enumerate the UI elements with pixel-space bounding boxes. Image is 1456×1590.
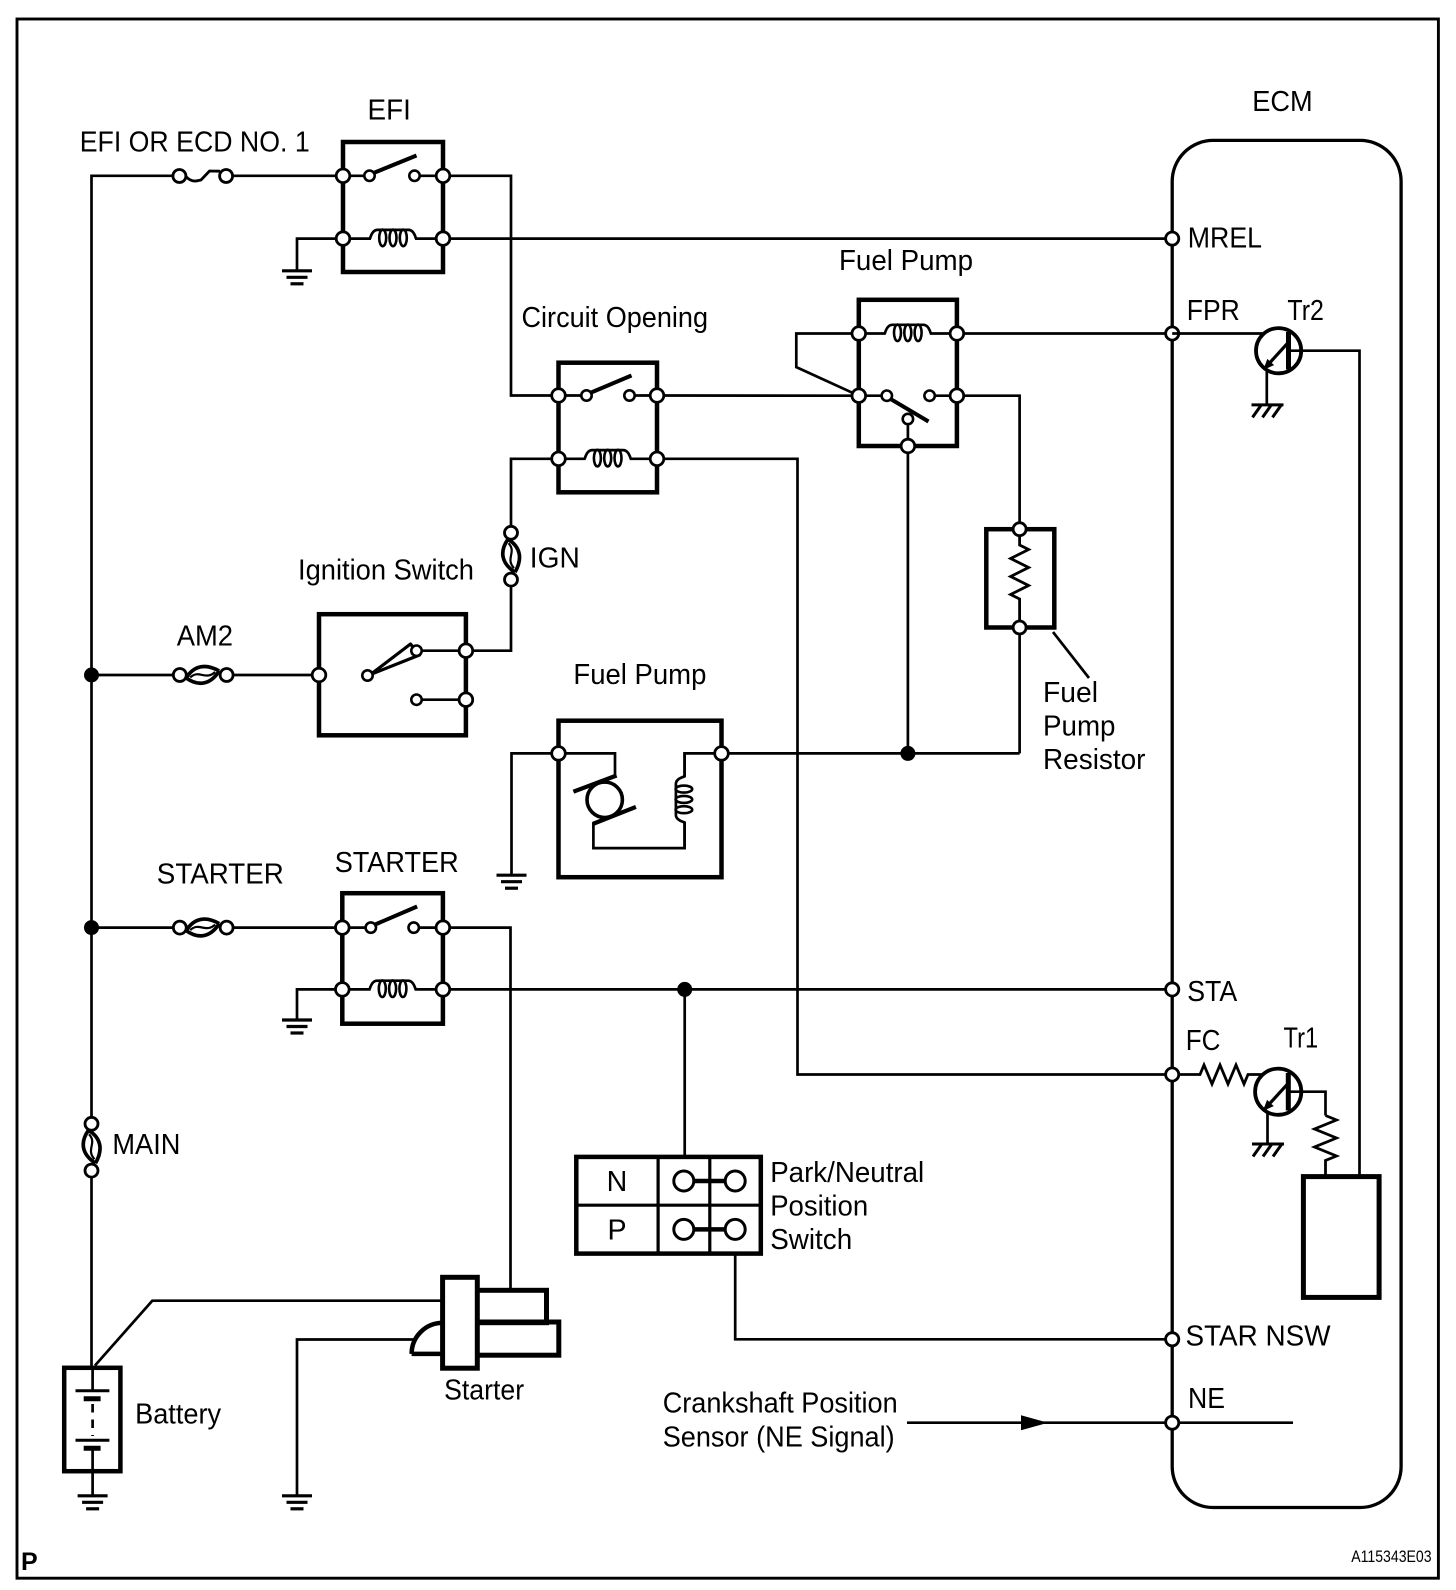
fuse IGN bbox=[503, 526, 520, 586]
pump motor coil bbox=[676, 752, 693, 846]
node junction STA to park neutral bbox=[677, 982, 692, 997]
label MREL bbox=[1188, 223, 1262, 255]
ground Tr2 bbox=[1252, 405, 1284, 418]
wire STA to park neutral switch bbox=[683, 989, 686, 1157]
ground STARTER relay bbox=[282, 1020, 312, 1033]
wire EFI coil to ground bbox=[297, 239, 336, 270]
label NE bbox=[1188, 1383, 1225, 1415]
svg-text:MAIN: MAIN bbox=[112, 1129, 180, 1161]
label FC bbox=[1186, 1025, 1221, 1057]
relay STARTER coil bbox=[346, 980, 440, 997]
ground starter bbox=[282, 1496, 312, 1509]
svg-text:Park/Neutral: Park/Neutral bbox=[770, 1157, 924, 1189]
label P row bbox=[607, 1214, 626, 1246]
svg-text:STAR NSW: STAR NSW bbox=[1186, 1320, 1331, 1352]
wire park neutral to STAR NSW bbox=[735, 1254, 1172, 1340]
svg-text:NE: NE bbox=[1188, 1383, 1225, 1415]
svg-text:EFI: EFI bbox=[368, 95, 411, 127]
callout line Fuel Pump Resistor bbox=[1053, 632, 1089, 678]
switch Park Neutral N row bbox=[674, 1171, 745, 1191]
svg-text:FC: FC bbox=[1186, 1025, 1221, 1057]
svg-text:AM2: AM2 bbox=[177, 620, 233, 652]
starter solenoid body bbox=[443, 1277, 478, 1368]
label A115343E03 bbox=[1351, 1548, 1431, 1566]
relay Fuel Pump switch pins bbox=[852, 389, 964, 403]
svg-text:FPR: FPR bbox=[1187, 295, 1240, 327]
label Park/Neutral Position Switch bbox=[770, 1157, 924, 1256]
svg-text:Tr2: Tr2 bbox=[1287, 295, 1324, 327]
starter lower housing bbox=[476, 1322, 559, 1355]
ground EFI relay bbox=[282, 271, 312, 284]
fuse AM2 bbox=[173, 666, 233, 683]
pump motor brushes bbox=[573, 776, 636, 825]
fuse EFI OR ECD NO. 1 bbox=[173, 170, 233, 183]
wire IGN fuse to ignition switch bbox=[466, 586, 511, 650]
wire AM2 left bbox=[92, 674, 174, 677]
label Ignition Switch bbox=[298, 555, 474, 587]
wire Circuit Opening coil to IGN fuse bbox=[511, 459, 559, 526]
relay Circuit Opening switch blade bbox=[559, 376, 658, 396]
relay Circuit Opening coil pins bbox=[552, 452, 664, 466]
switch blade bbox=[371, 644, 420, 675]
relay Fuel Pump bottom pin bbox=[901, 439, 915, 453]
label Crankshaft Position Sensor bbox=[663, 1387, 898, 1453]
label EFI bbox=[368, 95, 411, 127]
relay Fuel Pump coil pins bbox=[852, 327, 964, 341]
label N bbox=[607, 1166, 628, 1198]
wire Fuel Pump relay bottom down bbox=[907, 446, 910, 753]
relay Circuit Opening coil bbox=[561, 450, 655, 467]
svg-text:Resistor: Resistor bbox=[1043, 744, 1146, 776]
relay STARTER coil pins bbox=[336, 983, 450, 997]
wire STARTER fuse to relay bbox=[233, 926, 342, 929]
pump motor circle bbox=[587, 782, 622, 817]
label ECM bbox=[1252, 86, 1312, 118]
relay Fuel Pump coil bbox=[861, 325, 955, 342]
label EFI OR ECD NO. 1 bbox=[80, 127, 310, 159]
label Tr1 bbox=[1284, 1022, 1319, 1054]
resistor Tr1 load zigzag bbox=[1315, 1116, 1337, 1177]
label Fuel Pump motor bbox=[573, 659, 706, 691]
svg-text:Fuel: Fuel bbox=[1043, 677, 1098, 709]
wire STARTER coil to ground bbox=[297, 989, 336, 1019]
label STAR NSW bbox=[1186, 1320, 1331, 1352]
transistor Tr1 emitter lead bbox=[1266, 1112, 1269, 1144]
label IGN bbox=[530, 542, 580, 574]
svg-text:P: P bbox=[21, 1548, 38, 1576]
label AM2 bbox=[177, 620, 233, 652]
svg-text:Starter: Starter bbox=[444, 1374, 524, 1406]
wire left bus bottom bbox=[90, 1177, 93, 1369]
wire fuel pump to ground bbox=[512, 753, 552, 874]
svg-text:MREL: MREL bbox=[1188, 223, 1262, 255]
label FPR bbox=[1187, 295, 1240, 327]
relay EFI switch blade bbox=[343, 156, 443, 176]
label Tr2 bbox=[1287, 295, 1324, 327]
svg-text:A115343E03: A115343E03 bbox=[1351, 1548, 1431, 1566]
node FC terminal bbox=[1166, 1068, 1179, 1081]
wire Circuit Opening coil to FC bbox=[657, 459, 1172, 1075]
transistor Tr2 emitter bbox=[1263, 341, 1290, 370]
switch pins bbox=[312, 668, 372, 682]
ground Tr1 bbox=[1252, 1144, 1284, 1157]
starter nose cone bbox=[412, 1323, 444, 1354]
resistor FC zigzag bbox=[1179, 1065, 1262, 1084]
svg-text:Fuel Pump: Fuel Pump bbox=[573, 659, 706, 691]
pump Fuel Pump box bbox=[559, 721, 722, 878]
label Fuel Pump relay bbox=[839, 245, 973, 277]
load box in ECM bbox=[1303, 1177, 1379, 1298]
svg-text:STA: STA bbox=[1187, 976, 1238, 1008]
wire battery to ground bbox=[91, 1471, 94, 1495]
svg-text:Tr1: Tr1 bbox=[1284, 1022, 1319, 1054]
wire STA bbox=[443, 988, 1172, 991]
node STAR NSW terminal bbox=[1166, 1333, 1179, 1346]
svg-text:EFI OR ECD NO. 1: EFI OR ECD NO. 1 bbox=[80, 127, 310, 159]
wire Fuel Pump coil loop bbox=[796, 334, 859, 396]
label P bbox=[21, 1548, 38, 1576]
svg-text:Fuel Pump: Fuel Pump bbox=[839, 245, 973, 277]
pump inner leads bbox=[559, 753, 722, 848]
svg-text:N: N bbox=[607, 1166, 628, 1198]
ground fuel pump bbox=[497, 875, 527, 888]
node resistor bottom bbox=[1013, 621, 1026, 634]
svg-text:Battery: Battery bbox=[135, 1399, 222, 1431]
transistor Tr1 emitter bbox=[1263, 1082, 1290, 1111]
relay STARTER switch blade bbox=[342, 907, 443, 928]
wire MREL bbox=[443, 237, 1172, 240]
relay EFI coil pins bbox=[336, 232, 450, 246]
relay Fuel Pump bottom contact bbox=[903, 414, 913, 441]
transistor Tr2 circle bbox=[1256, 328, 1301, 373]
wire FPR bbox=[957, 332, 1172, 335]
switch Park Neutral box bbox=[576, 1157, 761, 1254]
wire NE arrow bbox=[907, 1415, 1293, 1430]
ground battery bbox=[78, 1496, 108, 1509]
transistor Tr1 circle bbox=[1255, 1069, 1301, 1115]
wire AM2 to ignition switch bbox=[233, 674, 319, 677]
label Fuel Pump Resistor bbox=[1043, 677, 1146, 776]
label STA bbox=[1187, 976, 1238, 1008]
svg-text:Switch: Switch bbox=[770, 1224, 852, 1256]
wire EFI switch to Circuit Opening relay bbox=[443, 176, 559, 396]
relay Fuel Pump switch blade bbox=[859, 396, 957, 422]
relay EFI coil bbox=[346, 230, 440, 247]
svg-text:Crankshaft Position: Crankshaft Position bbox=[663, 1387, 898, 1419]
relay Fuel Pump box bbox=[859, 300, 957, 446]
relay Circuit Opening box bbox=[559, 363, 658, 493]
svg-text:STARTER: STARTER bbox=[157, 859, 284, 891]
resistor Fuel Pump Resistor box bbox=[986, 529, 1054, 627]
switch Ignition Switch box bbox=[319, 614, 466, 735]
wire Fuel Pump relay switch to resistor bbox=[957, 396, 1020, 523]
transistor Tr2 emitter lead bbox=[1265, 371, 1268, 404]
switch Park Neutral dividers bbox=[576, 1157, 761, 1254]
relay STARTER switch pins bbox=[336, 921, 450, 935]
node junction STARTER bbox=[84, 920, 99, 935]
wire Tr2 collector bbox=[1289, 351, 1360, 1177]
relay EFI switch pins bbox=[336, 169, 450, 183]
node MREL terminal bbox=[1166, 232, 1179, 245]
label Starter bbox=[444, 1374, 524, 1406]
starter upper housing bbox=[476, 1290, 547, 1322]
relay EFI box bbox=[343, 142, 443, 272]
svg-text:P: P bbox=[607, 1214, 626, 1246]
transistor Tr2 base bar bbox=[1286, 332, 1291, 370]
wire Circuit Opening switch to Fuel Pump relay bbox=[657, 394, 859, 397]
label STARTER fuse bbox=[157, 859, 284, 891]
battery plates bbox=[76, 1368, 110, 1471]
svg-text:Position: Position bbox=[770, 1191, 868, 1223]
pump pins bbox=[552, 747, 729, 761]
node junction AM2 bbox=[84, 668, 99, 683]
label Circuit Opening bbox=[522, 302, 709, 334]
switch upper contact bbox=[411, 644, 472, 658]
node NE terminal bbox=[1166, 1416, 1179, 1429]
battery box bbox=[64, 1368, 120, 1471]
transistor Tr1 base bar bbox=[1286, 1073, 1291, 1111]
relay STARTER box bbox=[342, 893, 443, 1024]
node resistor top bbox=[1013, 523, 1026, 536]
svg-text:ECM: ECM bbox=[1252, 86, 1312, 118]
node junction fuel pump bus bbox=[900, 746, 915, 761]
node FPR terminal bbox=[1166, 327, 1179, 340]
resistor Fuel Pump Resistor zigzag bbox=[1011, 536, 1029, 621]
transistor Tr2 base lead bbox=[1172, 332, 1262, 335]
relay Circuit Opening switch pins bbox=[552, 389, 664, 403]
label STARTER relay bbox=[335, 847, 459, 879]
switch Park Neutral P row bbox=[674, 1219, 745, 1239]
wire battery to starter bbox=[95, 1301, 443, 1366]
wire STARTER left bbox=[92, 926, 174, 929]
svg-text:STARTER: STARTER bbox=[335, 847, 459, 879]
fuse MAIN bbox=[83, 1117, 100, 1177]
switch lower contact bbox=[411, 693, 472, 707]
wire left bus top bbox=[92, 176, 174, 1118]
node STA terminal bbox=[1166, 983, 1179, 996]
svg-text:Sensor (NE Signal): Sensor (NE Signal) bbox=[663, 1422, 895, 1454]
fuse STARTER bbox=[173, 919, 233, 936]
svg-text:Pump: Pump bbox=[1043, 711, 1116, 743]
ECM box bbox=[1172, 140, 1401, 1507]
wire fuse to EFI relay bbox=[233, 174, 343, 177]
svg-text:Circuit Opening: Circuit Opening bbox=[522, 302, 709, 334]
svg-text:IGN: IGN bbox=[530, 542, 580, 574]
label MAIN bbox=[112, 1129, 180, 1161]
wire fuel pump top bus bbox=[722, 752, 1020, 755]
wire STARTER switch to starter motor bbox=[443, 928, 511, 1291]
svg-text:Ignition Switch: Ignition Switch bbox=[298, 555, 474, 587]
wire resistor bottom down bbox=[1018, 634, 1021, 753]
wire Tr1 collector bbox=[1288, 1092, 1325, 1116]
wire starter to ground bbox=[297, 1340, 415, 1496]
label Battery bbox=[135, 1399, 222, 1431]
